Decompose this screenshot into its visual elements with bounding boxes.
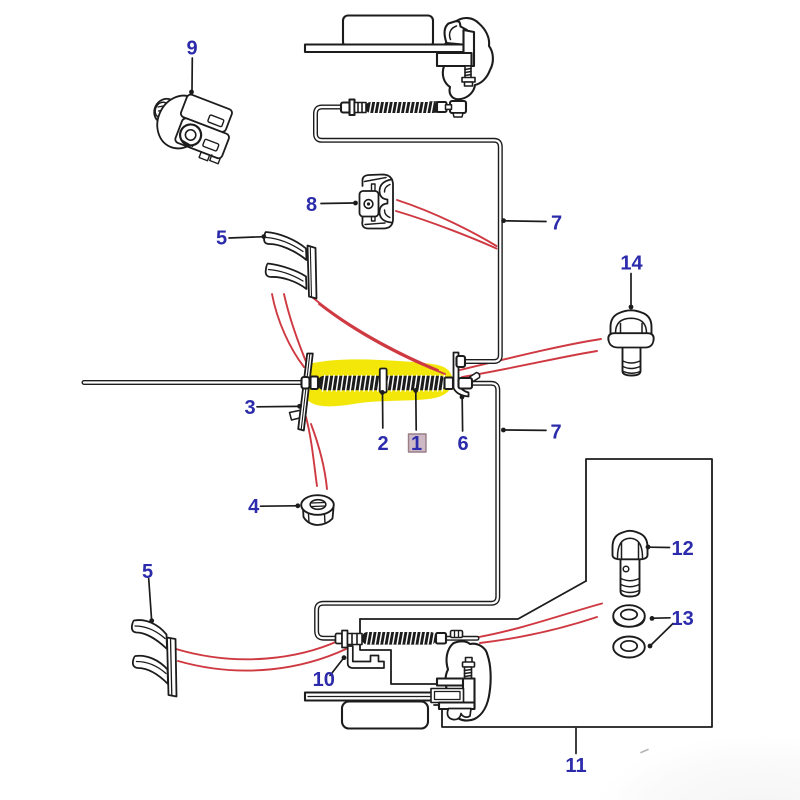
leader 5 bottom (149, 579, 152, 619)
leader 5 top (229, 237, 261, 238)
upper clamp arm (464, 30, 475, 66)
bracket 3 (290, 354, 313, 431)
lower clamp jaw bottom (439, 703, 475, 710)
leader 1 (415, 392, 417, 430)
leader 7 top (506, 220, 547, 223)
svg-text:3: 3 (244, 397, 255, 419)
lower plate (305, 693, 463, 701)
lower clamp hook (447, 709, 471, 720)
upper hose threaded end (430, 102, 444, 112)
upper hose flange (350, 100, 355, 116)
svg-text:2: 2 (377, 433, 388, 455)
wire: lower caliper pipe stub (446, 636, 477, 641)
leader 8 (321, 202, 353, 205)
centre hose right fitting (445, 378, 454, 390)
svg-text:11: 11 (565, 755, 586, 777)
upper mounting box (343, 16, 433, 48)
upper tube nut at bracket (457, 356, 466, 367)
leader 13b (652, 624, 674, 645)
lower hose banjo block (451, 631, 463, 638)
red pair: bracket 3 to grommet 4 (306, 417, 317, 486)
upper bracket beak (445, 21, 468, 45)
svg-text:5: 5 (142, 561, 153, 583)
parts (132, 16, 654, 729)
lower hose hex (348, 634, 363, 645)
lower clamp jaw top (437, 679, 472, 686)
clip 8 (360, 175, 394, 229)
bracket 10 (348, 646, 384, 668)
centre hose collar (311, 377, 319, 390)
svg-text:6: 6 (457, 433, 468, 455)
lower hose coil (362, 632, 436, 645)
centre hose coil (318, 376, 446, 392)
leader 13a (654, 617, 670, 619)
right bracket plate (454, 353, 480, 397)
leader 14 (630, 274, 632, 305)
lower hose end fitting (436, 633, 446, 644)
upper hose left fitting block (341, 103, 352, 113)
leader 6 (461, 399, 463, 431)
lower clamp inner plate (431, 689, 464, 703)
leader 9 (191, 58, 193, 90)
clip 5 upper (264, 232, 316, 299)
washer 13a (613, 605, 645, 627)
label 1 highlight box (409, 434, 427, 452)
highlight blob around hose 1 (302, 359, 452, 406)
svg-text:13: 13 (671, 608, 693, 630)
lower body rounded box (342, 702, 428, 729)
clip 5 lower (132, 620, 177, 696)
upper clamp bolt (462, 66, 475, 86)
enclosure boxes (360, 459, 712, 727)
clip 2 on hose (380, 369, 387, 393)
upper plate (305, 45, 464, 53)
lower hose flange (342, 631, 348, 648)
wire: lower pipe loop from centre hose down to lower hose (317, 383, 498, 638)
red pair: clip 5 (top) to hose right end (312, 297, 438, 370)
box 11 outline (434, 459, 712, 727)
svg-text:14: 14 (620, 253, 643, 275)
lower hose entry block (336, 634, 343, 644)
upper hose end fitting (437, 102, 447, 112)
wire: top brake pipe from upper hose to chassis run (316, 107, 501, 362)
lower banjo block at bracket (459, 378, 473, 389)
leader 4 (261, 505, 296, 507)
grommet 9 (149, 88, 239, 165)
washer 13b (613, 637, 645, 658)
lower enclosure stepped outline (360, 619, 437, 684)
lower caliper bolt (463, 658, 475, 683)
leader 12 (650, 546, 670, 548)
svg-text:9: 9 (186, 38, 197, 60)
leader 7 bottom (506, 429, 547, 431)
leader 2 (382, 394, 384, 428)
upper hose coil (366, 102, 438, 113)
upper hose neck (446, 105, 452, 110)
lower clamp body (463, 679, 475, 709)
red pair: clip 5 (top) to hose left end (272, 294, 304, 367)
red pair: hose right end to bolt 14 (460, 339, 601, 370)
wire: long centre pipe to rear (84, 380, 304, 385)
leader 11 (575, 729, 577, 754)
red leader curves (176, 200, 602, 671)
leader 10 (330, 660, 343, 676)
upper caliper blob (441, 18, 493, 99)
upper clamp jaw (437, 53, 472, 66)
red pair: lower hose to washers 13 (476, 604, 602, 638)
lower caliper blob (445, 641, 490, 720)
svg-text:12: 12 (671, 538, 693, 560)
red pair: clip 8 to pipe 7 (397, 200, 497, 246)
pipes (84, 107, 500, 638)
svg-text:7: 7 (550, 422, 561, 444)
bolt 14 (608, 310, 653, 375)
svg-text:5: 5 (216, 228, 227, 250)
box 11 diagonal notch (360, 581, 586, 619)
leader 3 (257, 405, 297, 407)
red pair: clip 5 (bottom) to hose 10 end (176, 641, 338, 659)
svg-text:7: 7 (551, 213, 562, 235)
svg-text:8: 8 (306, 194, 317, 216)
upper hose hex (355, 103, 367, 113)
svg-text:10: 10 (313, 669, 335, 691)
centre hose: pipe end fitting (302, 377, 310, 389)
upper hose banjo fitting (450, 101, 466, 113)
banjo bolt 12 (613, 531, 648, 597)
grommet 4 (301, 495, 334, 525)
leaders (149, 58, 673, 754)
svg-text:1: 1 (411, 433, 422, 455)
svg-text:4: 4 (248, 496, 260, 518)
